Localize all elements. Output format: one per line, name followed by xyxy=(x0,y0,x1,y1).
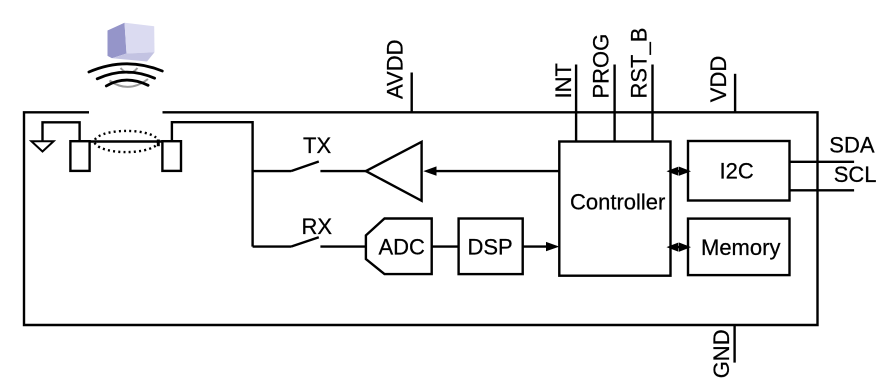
ADC xyxy=(366,219,432,275)
SDA label xyxy=(829,133,875,158)
wire left electrode to ground xyxy=(43,122,80,141)
pin AVDD xyxy=(383,40,412,113)
ultrasound wave arc 1 xyxy=(89,64,162,72)
svg-text:DSP: DSP xyxy=(468,234,513,259)
SCL label xyxy=(834,162,877,187)
svg-text:SCL: SCL xyxy=(834,162,877,187)
I2C U2 xyxy=(688,141,790,201)
svg-text:GND: GND xyxy=(709,329,734,378)
transducer cube bottom face xyxy=(113,52,155,61)
TX switch xyxy=(253,162,367,172)
coupling dotted ellipse xyxy=(95,131,159,152)
bidirectional arrow controller-memory xyxy=(667,243,692,252)
svg-text:RX: RX xyxy=(302,214,333,239)
wire right electrode to switches xyxy=(172,122,253,246)
controller U1 xyxy=(559,142,670,276)
svg-text:AVDD: AVDD xyxy=(383,40,408,100)
svg-text:Memory: Memory xyxy=(701,235,780,260)
pin GND xyxy=(709,325,735,378)
ultrasound wave arc 3 xyxy=(106,80,148,86)
wire controller to amplifier xyxy=(423,166,559,175)
pin RST_B xyxy=(627,28,653,142)
svg-text:ADC: ADC xyxy=(379,234,426,259)
pin INT xyxy=(551,63,576,141)
pin VDD xyxy=(706,56,735,113)
svg-text:I2C: I2C xyxy=(720,159,754,184)
svg-text:RST_B: RST_B xyxy=(627,28,652,99)
RX label xyxy=(302,214,333,239)
TX label xyxy=(303,133,331,158)
ultrasound wave arc 2 xyxy=(97,72,154,79)
svg-text:SDA: SDA xyxy=(829,133,875,158)
svg-text:Controller: Controller xyxy=(570,190,665,215)
DSP xyxy=(459,219,523,275)
wire SDA xyxy=(790,161,855,163)
wire SCL xyxy=(790,189,855,191)
svg-text:TX: TX xyxy=(303,133,331,158)
wire between electrodes xyxy=(90,140,163,142)
svg-text:INT: INT xyxy=(551,63,576,98)
ultrasound grey arc large xyxy=(110,79,149,87)
amplifier xyxy=(366,142,422,201)
ground xyxy=(31,141,53,151)
RX switch xyxy=(253,237,366,246)
bidirectional arrow controller-I2C xyxy=(667,167,692,176)
transducer cube front face xyxy=(125,23,155,54)
pin PROG xyxy=(589,34,615,142)
transducer cube left face xyxy=(108,23,127,59)
arrow DSP to controller xyxy=(523,242,560,251)
right electrode xyxy=(162,141,181,171)
wire ADC to DSP xyxy=(432,245,459,247)
svg-text:PROG: PROG xyxy=(589,34,614,99)
tick at right electrode xyxy=(157,140,160,147)
chip boundary xyxy=(24,112,818,325)
left electrode xyxy=(70,141,89,171)
memory U3 xyxy=(688,219,790,276)
svg-text:VDD: VDD xyxy=(706,56,731,102)
ultrasound grey arc small xyxy=(121,68,138,73)
